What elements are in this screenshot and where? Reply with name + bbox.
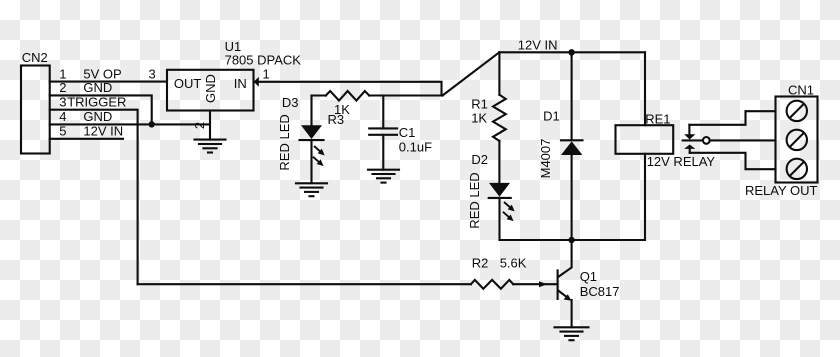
wire CN2 pin2 GND down to node — [50, 95, 152, 124]
svg-text:0.1uF: 0.1uF — [399, 140, 432, 155]
D2 light arrows — [502, 200, 517, 214]
svg-text:GND: GND — [203, 74, 218, 103]
ground under D3 — [296, 183, 327, 196]
emitter — [559, 291, 569, 298]
junction 12V rail / D1 — [568, 49, 574, 55]
wire CN2 pin4 GND to U1 GND pin — [50, 123, 210, 125]
svg-text:5V OP: 5V OP — [83, 66, 121, 81]
wire R1 to D2 — [498, 141, 500, 183]
svg-text:2: 2 — [192, 122, 207, 129]
svg-text:5.6K: 5.6K — [500, 256, 527, 271]
svg-text:R1: R1 — [471, 97, 488, 112]
svg-text:12V IN: 12V IN — [83, 124, 123, 139]
svg-text:1: 1 — [263, 67, 270, 82]
ground under U1 — [195, 140, 226, 153]
wire diagonal to 12V IN rail — [443, 52, 500, 95]
svg-text:D1: D1 — [543, 109, 560, 124]
ground under C1 — [368, 170, 399, 183]
relay contact arrows — [684, 125, 695, 153]
resistor R2 zigzag — [471, 280, 513, 289]
svg-text:RELAY OUT: RELAY OUT — [745, 183, 818, 198]
svg-text:3: 3 — [59, 95, 66, 110]
base arrow into Q1 — [539, 281, 547, 287]
svg-text:1K: 1K — [471, 111, 487, 126]
svg-text:12V IN: 12V IN — [518, 38, 558, 53]
pin 4 label GND — [59, 109, 112, 124]
wire contact NC to CN1 pin1 — [689, 111, 775, 125]
pin 1 label 5V OP — [59, 66, 121, 81]
svg-text:RED LED: RED LED — [467, 172, 482, 228]
capacitor C1 — [369, 96, 432, 170]
pin 3 label TRIGGER — [59, 95, 126, 110]
svg-text:D3: D3 — [282, 95, 299, 110]
wire R3 left corner down to D3 — [310, 96, 312, 126]
pin 5 label 12V IN — [59, 124, 123, 139]
pin 2 label GND — [59, 80, 112, 95]
svg-text:4: 4 — [59, 109, 66, 124]
CN1 screw terminal 1 — [787, 101, 807, 121]
svg-text:R3: R3 — [328, 112, 345, 127]
wire R2 to Q1 base — [513, 283, 556, 285]
svg-text:R2: R2 — [472, 256, 489, 271]
base bar — [557, 270, 559, 299]
diode D1 M4007 — [538, 52, 583, 240]
svg-text:5: 5 — [59, 124, 66, 139]
LED D2 — [467, 152, 517, 229]
wire CN2 pin1 to U1 OUT — [50, 81, 167, 83]
junction bottom rail / Q1 collector — [568, 237, 574, 243]
wire U1 GND pin down — [209, 111, 211, 140]
CN1 screw terminal 2 — [787, 130, 807, 150]
wire D2 to bottom rail — [500, 198, 572, 240]
svg-text:7805 DPACK: 7805 DPACK — [225, 52, 302, 67]
contact common line and pivot circle — [683, 137, 776, 144]
U1 IN pin arrow — [254, 77, 259, 87]
resistor R3 zigzag — [326, 91, 369, 101]
wire CN2 pin3 TRIGGER down to bottom rail — [50, 110, 138, 285]
wire contact NO to CN1 pin3 — [690, 153, 776, 169]
connector CN1 — [776, 82, 818, 182]
node 12V IN rail — [499, 51, 645, 53]
svg-text:RED LED: RED LED — [277, 114, 292, 170]
wire CN2 pin5 12V IN stub — [50, 138, 123, 140]
bottom rail of relay loop — [500, 239, 646, 241]
wire U1 IN to 12V node — [254, 82, 442, 96]
relay coil RE1 — [616, 52, 716, 240]
CN1 screw terminal 3 — [787, 159, 807, 179]
svg-text:BC817: BC817 — [580, 284, 620, 299]
svg-text:TRIGGER: TRIGGER — [67, 95, 126, 110]
svg-text:D2: D2 — [471, 152, 488, 167]
transistor Q1 BC817 — [558, 240, 620, 327]
wire R3/C1 node — [312, 94, 326, 96]
svg-text:12V RELAY: 12V RELAY — [647, 154, 716, 169]
op-amp U1 regulator 7805 — [167, 39, 301, 111]
svg-text:Q1: Q1 — [580, 269, 597, 284]
resistor R1 zigzag — [493, 95, 506, 141]
D3 light arrows — [312, 144, 327, 158]
wire bottom rail to R2 — [138, 283, 471, 285]
svg-text:CN1: CN1 — [788, 82, 814, 97]
collector — [559, 240, 572, 277]
svg-text:M4007: M4007 — [538, 139, 553, 179]
svg-text:GND: GND — [83, 109, 112, 124]
svg-text:C1: C1 — [399, 125, 416, 140]
svg-text:OUT: OUT — [174, 76, 202, 91]
junction GND node — [149, 121, 155, 127]
svg-text:1: 1 — [59, 66, 66, 81]
LED D3 — [277, 95, 327, 183]
svg-text:CN2: CN2 — [22, 50, 48, 65]
connector CN2 — [21, 50, 50, 154]
svg-text:3: 3 — [149, 67, 156, 82]
wire 12V rail down to R1 — [498, 52, 500, 94]
svg-text:IN: IN — [234, 76, 247, 91]
ground under Q1 — [555, 327, 589, 340]
